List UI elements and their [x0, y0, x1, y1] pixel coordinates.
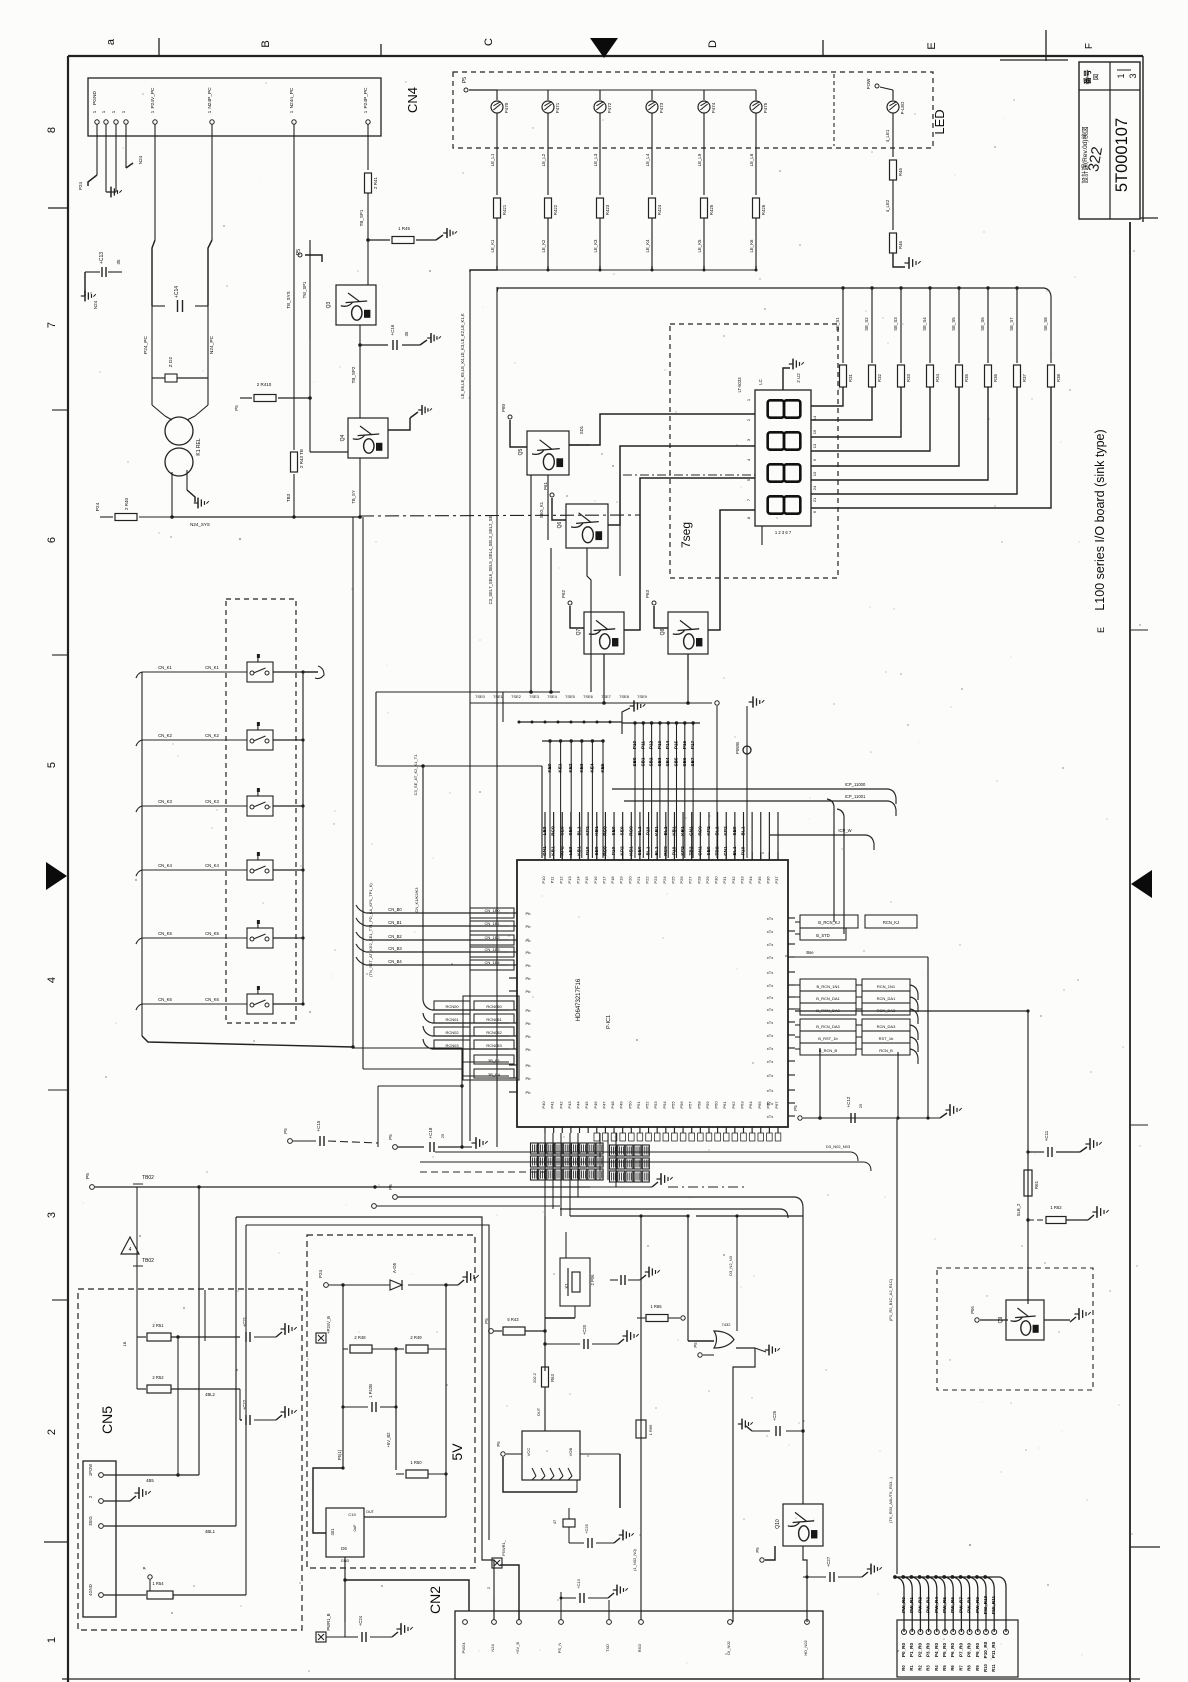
- node P5 supervisor: [496, 1441, 522, 1456]
- wire xtal drop: [819, 1048, 821, 1118]
- node P5 decouple: [388, 1134, 424, 1150]
- ground R62: [1088, 1206, 1109, 1220]
- svg-text:7: 7: [746, 498, 751, 501]
- svg-text:CN_K2: CN_K2: [158, 733, 172, 738]
- svg-text:2 R410: 2 R410: [257, 382, 272, 387]
- svg-text:+C15: +C15: [316, 1120, 321, 1131]
- regulator U3: [326, 1508, 364, 1563]
- wire U1 left in 5: [356, 957, 514, 970]
- svg-text:P26: P26: [679, 876, 684, 884]
- wire Q6 base: [543, 482, 566, 520]
- wire R22 down: [593, 218, 600, 266]
- wire PWR1 link: [326, 1622, 345, 1637]
- svg-text:P43: P43: [567, 1101, 572, 1109]
- wire switch left rail: [142, 672, 355, 1049]
- label TB_SYS2: [351, 490, 356, 503]
- svg-text:番号: 番号: [1082, 69, 1092, 86]
- svg-text:R4: R4: [934, 1665, 939, 1671]
- svg-text:RCN050: RCN050: [486, 1004, 502, 1009]
- svg-text:TXD: TXD: [605, 1644, 610, 1652]
- svg-text:7SE4: 7SE4: [547, 694, 558, 699]
- svg-text:P10_R0: P10_R0: [983, 1641, 988, 1658]
- resistor R40 on rail: [95, 498, 172, 521]
- svg-text:+C14: +C14: [174, 286, 180, 298]
- svg-text:P24: P24: [78, 182, 83, 191]
- CN2 pin TXD: [605, 1620, 611, 1652]
- svg-text:1: 1: [101, 110, 106, 113]
- wire chip drop 1: [552, 1133, 554, 1209]
- svg-text:CN_K3: CN_K3: [205, 799, 219, 804]
- svg-text:P44: P44: [576, 1101, 581, 1109]
- svg-text:CN_K1/K2/K3: CN_K1/K2/K3: [414, 887, 419, 913]
- svg-text:P470: P470: [504, 102, 509, 113]
- ground C24: [392, 1623, 413, 1637]
- capacitor C13: [85, 252, 122, 277]
- node P5i: [337, 1449, 342, 1460]
- label 5V: [449, 1443, 465, 1461]
- capacitor C25: [569, 1523, 614, 1548]
- wire vert x137: [136, 1187, 138, 1389]
- svg-text:+C22: +C22: [242, 1399, 247, 1410]
- svg-text:R9: R9: [975, 1665, 980, 1671]
- svg-text:P18: P18: [610, 876, 615, 884]
- svg-text:P63: P63: [645, 590, 650, 599]
- wire chip drop 5b: [544, 1133, 546, 1216]
- svg-text:Q3: Q3: [326, 301, 332, 308]
- svg-text:P5: P5: [388, 1184, 393, 1190]
- 7seg digit 1: [768, 400, 801, 417]
- power 5V dashed box: [307, 1235, 475, 1568]
- svg-text:P5: P5: [793, 1105, 798, 1111]
- svg-text:+C20: +C20: [582, 1324, 587, 1335]
- node P24V: [318, 1270, 328, 1288]
- svg-text:P45: P45: [584, 1101, 589, 1109]
- svg-text:1 2 3 6 7: 1 2 3 6 7: [775, 530, 792, 535]
- wire x310 top: [302, 240, 310, 340]
- CN4 pin label P24V_PC: [150, 87, 156, 109]
- capacitor C24: [345, 1615, 392, 1642]
- svg-text:5: 5: [46, 762, 58, 768]
- wire U1 left low 2: [423, 1013, 514, 1023]
- svg-text:B_RST_1b: B_RST_1b: [818, 1036, 838, 1041]
- svg-text:R425: R425: [709, 204, 714, 215]
- wire ICP line 3: [770, 828, 874, 850]
- bus junction seg 2: [870, 286, 873, 289]
- wire seg 3 return: [811, 387, 901, 437]
- svg-text:25: 25: [858, 1103, 863, 1108]
- svg-text:P5: P5: [755, 1547, 760, 1553]
- svg-text:P30: P30: [714, 876, 719, 884]
- resistor R31 seg: [869, 365, 883, 387]
- svg-text:P24: P24: [95, 502, 101, 511]
- svg-text:CN_K4: CN_K4: [158, 863, 172, 868]
- svg-text:P57: P57: [688, 1101, 693, 1109]
- svg-text:2 R43: 2 R43: [299, 456, 304, 469]
- LED bus junction: [755, 266, 758, 272]
- svg-text:SE_S6: SE_S6: [980, 317, 985, 331]
- capacitor C12: [846, 1096, 863, 1123]
- svg-text:P54: P54: [662, 1101, 667, 1109]
- wire Q6 emitter down: [587, 548, 591, 692]
- net box RCN_DA3: [795, 1019, 918, 1040]
- LED LD4: [646, 90, 664, 113]
- wire CN4 pin8 down: [367, 136, 369, 170]
- ground CN4 pins: [106, 187, 122, 198]
- svg-text:P8_R0: P8_R0: [967, 1643, 972, 1657]
- svg-text:図: 図: [1093, 74, 1100, 80]
- CN2 pin DI_N02: [726, 1620, 732, 1655]
- svg-text:P5: P5: [296, 249, 302, 255]
- LED LD3: [594, 90, 612, 113]
- svg-text:P9_R0: P9_R0: [975, 1643, 980, 1657]
- capacitor C21: [242, 1316, 276, 1342]
- wire R25 down: [749, 218, 756, 266]
- LED LD1: [491, 90, 509, 113]
- LED LD2: [542, 90, 560, 113]
- svg-text:1: 1: [150, 110, 155, 113]
- svg-text:PW_R1: PW_R1: [909, 1597, 914, 1613]
- svg-text:LE_L6: LE_L6: [749, 153, 754, 166]
- svg-text:PW_R7: PW_R7: [958, 1597, 963, 1613]
- wire LED LD1 to resistor: [490, 113, 497, 195]
- ground OR right: [755, 1345, 780, 1356]
- label 7seg: [679, 522, 693, 548]
- wire bus y1197: [388, 1184, 803, 1208]
- svg-text:R32: R32: [877, 373, 882, 381]
- capacitor C23: [341, 1384, 397, 1412]
- wire LED anode rail: [497, 89, 756, 91]
- svg-text:SE_S5: SE_S5: [951, 317, 956, 331]
- node P5 OR: [693, 1342, 714, 1357]
- U1 right pin stubs: [788, 918, 795, 1116]
- wire seg 2 down: [864, 288, 872, 363]
- svg-text:PS_N: PS_N: [557, 1643, 562, 1654]
- switch SW5: [247, 920, 273, 948]
- CN2 pin HD_N02: [803, 1620, 809, 1656]
- svg-text:7432: 7432: [722, 1322, 732, 1327]
- svg-text:xTx: xTx: [767, 942, 773, 947]
- svg-text:CN_K5: CN_K5: [158, 931, 172, 936]
- svg-text:RCN03: RCN03: [445, 1043, 459, 1048]
- transistor Q3: [326, 285, 376, 325]
- U1 left pin stubs: [509, 913, 517, 1092]
- svg-text:POW: POW: [866, 78, 871, 90]
- wire U1 left in 3: [356, 932, 514, 945]
- CN5 pin 1: [88, 1464, 103, 1478]
- svg-text:SE_S7: SE_S7: [1009, 317, 1014, 331]
- svg-text:P61: P61: [543, 482, 548, 491]
- wire seg 1 down: [835, 288, 843, 363]
- svg-text:1: 1: [207, 110, 212, 113]
- svg-text:1: 1: [121, 110, 126, 113]
- wire LED LD6 to resistor: [749, 113, 756, 195]
- wire chip drop 2: [560, 1133, 562, 1216]
- svg-text:P36: P36: [765, 876, 770, 884]
- resistor R44: [234, 382, 312, 411]
- svg-text:CN_K5: CN_K5: [205, 931, 219, 936]
- wire 5V left rail: [342, 1285, 344, 1468]
- ground C16: [420, 333, 441, 345]
- wire line y1187: [95, 1185, 590, 1188]
- svg-text:TB_SP2: TB_SP2: [351, 366, 356, 383]
- capacitor C28: [560, 1578, 609, 1603]
- resistor R20 LED: [494, 198, 508, 218]
- resistor R43: [494, 1317, 547, 1335]
- svg-text:1 R45: 1 R45: [398, 226, 411, 231]
- svg-text:RCN051: RCN051: [486, 1017, 502, 1022]
- rail left B: [363, 517, 464, 1147]
- wire CN4 pin5 down: [152, 136, 155, 306]
- wire PW mid: [885, 180, 893, 230]
- net box RCN_DA1: [795, 991, 918, 1012]
- net box STO: [795, 928, 846, 940]
- svg-text:CN_1B0: CN_1B0: [484, 908, 500, 913]
- svg-text:3SIG: 3SIG: [88, 1516, 93, 1526]
- svg-text:SB4: SB4: [665, 757, 670, 766]
- wire Q9 collector top: [1027, 1271, 1029, 1300]
- wire dash y1172: [420, 1171, 545, 1173]
- wire left low extra2: [462, 1069, 514, 1078]
- label +5V: [386, 1432, 391, 1448]
- svg-text:7SE0: 7SE0: [475, 694, 486, 699]
- svg-text:P11: P11: [640, 741, 645, 749]
- resistor R22 LED: [597, 198, 611, 218]
- ground C27: [862, 1564, 882, 1577]
- svg-text:R8: R8: [967, 1665, 972, 1671]
- resistor R35 seg: [985, 365, 999, 387]
- svg-text:LE_L2: LE_L2: [541, 153, 546, 166]
- label CN5: [99, 1406, 115, 1434]
- wire supervisor right: [580, 1454, 620, 1508]
- wire SW4 right: [273, 868, 305, 871]
- svg-text:+C18: +C18: [428, 1127, 433, 1138]
- wire seg 4 return: [811, 387, 930, 451]
- svg-text:TB3: TB3: [286, 493, 291, 502]
- svg-text:+P24V_B: +P24V_B: [326, 1316, 331, 1334]
- net box RCN_1N1: [795, 979, 918, 1000]
- wire bus y1216: [570, 1214, 803, 1217]
- wire Q7 base: [561, 590, 584, 628]
- wire ICP line 2: [624, 794, 896, 816]
- svg-text:KE1: KE1: [558, 763, 563, 772]
- resistor R34 seg: [956, 365, 970, 387]
- svg-text:P0_R0: P0_R0: [901, 1643, 906, 1657]
- svg-text:R3: R3: [926, 1665, 931, 1671]
- rail mid B: [496, 287, 498, 1147]
- svg-text:xTx: xTx: [767, 995, 773, 1000]
- svg-text:Pb: Pb: [526, 1047, 532, 1052]
- svg-text:P473: P473: [659, 102, 664, 113]
- svg-text:2: 2: [486, 1586, 491, 1589]
- wire reset node: [544, 1216, 546, 1371]
- svg-text:R421: R421: [502, 204, 507, 215]
- wire SW3 left: [136, 799, 247, 812]
- svg-text:CN_B1: CN_B1: [388, 920, 402, 925]
- svg-text:CN_K1: CN_K1: [205, 665, 219, 670]
- label LED: [932, 109, 947, 134]
- resistor R51: [122, 1323, 240, 1346]
- svg-text:B_RCN_KJ: B_RCN_KJ: [818, 920, 839, 925]
- node P5 CN5: [142, 1566, 152, 1591]
- resistor R62: [1026, 1205, 1088, 1224]
- wire dotted link y722: [518, 721, 623, 724]
- svg-text:Pb: Pb: [526, 1008, 532, 1013]
- wire CN2 pin4 up: [560, 1592, 562, 1620]
- U1 bottom pin stubs: [545, 1127, 778, 1133]
- svg-text:PW_R5: PW_R5: [942, 1597, 947, 1613]
- wire CN5 vert x236: [236, 1217, 246, 1595]
- svg-text:R7: R7: [958, 1665, 963, 1671]
- labels seg bus: [475, 694, 648, 699]
- resistor R52: [137, 1375, 240, 1397]
- wire regulator out: [364, 1510, 446, 1517]
- svg-text:xTx: xTx: [767, 1033, 773, 1038]
- svg-text:P65: P65: [757, 1101, 762, 1109]
- supervisor U4: [522, 1431, 580, 1480]
- wire U1 left in 1: [356, 905, 514, 918]
- svg-text:25: 25: [440, 1133, 445, 1138]
- ground R45: [436, 228, 457, 240]
- label N24_PC right: [209, 335, 215, 354]
- wire Q3 collector: [367, 240, 369, 285]
- resistor R21 LED: [545, 198, 559, 218]
- svg-text:P32: P32: [731, 876, 736, 884]
- rail left C: [375, 692, 377, 766]
- svg-text:RCN01: RCN01: [445, 1017, 459, 1022]
- U1 bottom net-name boxes right: [610, 1145, 650, 1182]
- svg-text:P41: P41: [550, 1101, 555, 1109]
- transistor Q4: [340, 418, 388, 458]
- svg-text:P49: P49: [619, 1101, 624, 1109]
- svg-text:Pb: Pb: [526, 1021, 532, 1026]
- CN4 pin 1: [92, 110, 99, 136]
- svg-text:LE_K1: LE_K1: [490, 239, 495, 253]
- svg-text:P475: P475: [763, 102, 768, 113]
- CN5 pin 4: [88, 1584, 103, 1597]
- wire U1 left in 4: [356, 944, 514, 957]
- svg-text:1: 1: [1116, 73, 1126, 78]
- svg-text:P27: P27: [688, 876, 693, 884]
- svg-text:P12: P12: [649, 740, 654, 749]
- wire SW2 left: [136, 733, 247, 746]
- svg-text:C3_SE_AT_K2_K1_T1: C3_SE_AT_K2_K1_T1: [413, 754, 418, 796]
- svg-text:OUT: OUT: [366, 1510, 375, 1514]
- svg-text:P474: P474: [711, 102, 716, 113]
- wire chip drop 3: [569, 1133, 571, 1216]
- net list text B: [368, 883, 373, 977]
- svg-text:1: 1: [746, 398, 751, 401]
- CN2 pin N24: [490, 1620, 496, 1652]
- svg-text:xTx: xTx: [767, 1101, 773, 1106]
- svg-text:4BL2: 4BL2: [205, 1392, 215, 1397]
- svg-text:SE_S1: SE_S1: [835, 317, 840, 331]
- wire R23 down: [645, 218, 652, 266]
- svg-text:+5V_B2: +5V_B2: [386, 1432, 391, 1448]
- svg-text:10: 10: [812, 471, 817, 476]
- svg-text:ICP_11001: ICP_11001: [845, 794, 866, 799]
- svg-text:SB6: SB6: [682, 757, 687, 766]
- svg-text:SEG_K1: SEG_K1: [539, 501, 544, 518]
- svg-text:P5WB: P5WB: [735, 742, 740, 754]
- svg-text:RXD: RXD: [637, 1644, 642, 1653]
- CN4 pin label N24P_PC: [207, 87, 213, 109]
- svg-text:TB02: TB02: [142, 1175, 154, 1181]
- svg-text:P58: P58: [696, 1101, 701, 1109]
- svg-text:7SE8: 7SE8: [619, 694, 630, 699]
- svg-text:SB2: SB2: [649, 757, 654, 766]
- bus 8 wires to U1: [632, 721, 695, 858]
- net list text A: [413, 313, 493, 795]
- capacitor C18: [428, 1127, 464, 1152]
- ground 7seg top: [783, 359, 804, 390]
- svg-text:R2: R2: [917, 1665, 922, 1671]
- svg-text:8: 8: [746, 516, 751, 519]
- wire bus y1209: [560, 1209, 788, 1260]
- svg-text:R5: R5: [942, 1665, 947, 1671]
- title text rev: [1080, 127, 1089, 184]
- svg-text:CN_B2: CN_B2: [388, 934, 402, 939]
- svg-text:1 P42B: 1 P42B: [368, 1384, 373, 1398]
- U1 left pin labels: [526, 911, 532, 1095]
- svg-text:P7_R0: P7_R0: [958, 1643, 963, 1657]
- svg-text:P5: P5: [484, 1318, 489, 1324]
- resistor R48: [343, 1335, 398, 1353]
- svg-text:P60: P60: [501, 404, 506, 413]
- svg-text:N24_SYS: N24_SYS: [190, 522, 210, 527]
- ground top-left small: [126, 155, 143, 168]
- svg-text:(1_N02_N0): (1_N02_N0): [632, 1548, 637, 1570]
- U1 top pin labels: [541, 876, 779, 884]
- transistor Q6 digit2: [557, 504, 608, 548]
- svg-text:2: 2: [46, 1429, 58, 1435]
- wire PW LED down: [885, 113, 893, 157]
- svg-text:Pb: Pb: [526, 1034, 532, 1039]
- svg-text:1 R54: 1 R54: [152, 1581, 164, 1586]
- capacitor C16: [358, 324, 420, 350]
- wire sup to CN2: [0, 0, 1, 1]
- bus junction seg 7: [1015, 286, 1018, 289]
- svg-text:P15: P15: [584, 876, 589, 884]
- svg-text:C: C: [483, 38, 495, 46]
- U1 right pin labels: [767, 916, 773, 1119]
- svg-text:R35: R35: [964, 373, 969, 381]
- CN2 pin +5V_B: [515, 1620, 521, 1654]
- CN4 pin label N24n_PC: [289, 87, 295, 108]
- wire CN5 pin3: [104, 1526, 236, 1534]
- svg-text:7SE1: 7SE1: [493, 694, 504, 699]
- sub-circuit dashed box: [937, 1268, 1093, 1390]
- svg-text:3: 3: [46, 1212, 58, 1218]
- svg-text:P10: P10: [632, 740, 637, 749]
- wire SW1 right: [273, 670, 305, 673]
- wire digit3 line: [624, 478, 755, 630]
- svg-text:P31: P31: [722, 876, 727, 884]
- 7seg display pin labels right: [812, 415, 817, 513]
- wire relay to rail: [172, 470, 195, 517]
- CN2 pin RXD: [637, 1620, 643, 1653]
- svg-text:P2_R0: P2_R0: [917, 1643, 922, 1657]
- net box RCN_DA2: [795, 1003, 918, 1024]
- wire x380 drop: [378, 1086, 462, 1147]
- svg-text:R45: R45: [898, 167, 903, 175]
- connector CN5 dashed box: [78, 1289, 302, 1630]
- svg-text:SB5: SB5: [674, 757, 679, 766]
- svg-text:Pb: Pb: [526, 976, 532, 981]
- svg-text:xTx: xTx: [767, 1088, 773, 1093]
- switch SW4: [247, 852, 273, 880]
- svg-text:P34: P34: [748, 876, 753, 884]
- 7seg digit 4: [768, 496, 801, 513]
